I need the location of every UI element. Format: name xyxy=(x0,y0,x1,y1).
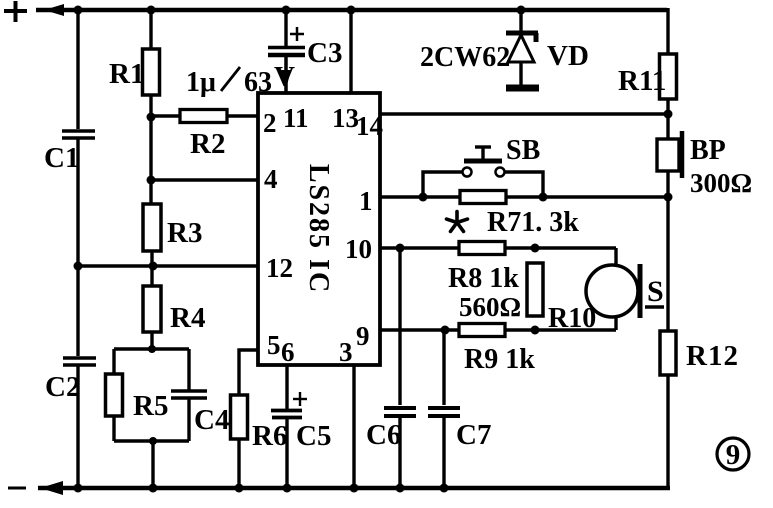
zener VD stem xyxy=(519,62,522,85)
microphone S plate xyxy=(638,264,643,318)
resistor R7 xyxy=(460,191,506,204)
svg-text:12: 12 xyxy=(266,253,293,283)
zener diode VD wire xyxy=(519,9,522,33)
capacitor C5 xyxy=(271,411,302,418)
svg-text:6: 6 xyxy=(281,337,295,367)
svg-text:C7: C7 xyxy=(456,419,491,451)
svg-text:R2: R2 xyxy=(190,128,225,160)
capacitor C4 xyxy=(171,391,207,398)
wire: BP bottom down right side xyxy=(666,171,669,331)
microphone S body xyxy=(586,265,638,317)
plus terminal xyxy=(4,1,27,22)
svg-text:S: S xyxy=(647,275,664,308)
wire: loop stem to rail xyxy=(151,441,154,488)
svg-text:R6: R6 xyxy=(252,420,287,452)
letter V arrow into pin 11 xyxy=(274,61,295,93)
svg-text:1: 1 xyxy=(359,186,373,216)
wire: pin 5 jog to R6 xyxy=(239,350,258,395)
bottom rail xyxy=(38,486,670,491)
svg-text:C2: C2 xyxy=(45,371,80,403)
wire: left line middle (C1 to C2) xyxy=(76,138,79,356)
minus terminal xyxy=(8,487,26,490)
svg-text:560Ω: 560Ω xyxy=(459,292,521,322)
svg-text:C1: C1 xyxy=(44,142,79,174)
wire: C7 to rail xyxy=(442,415,445,488)
junction dots bottom rail xyxy=(74,484,449,493)
svg-text:9: 9 xyxy=(356,321,370,351)
capacitor C7 xyxy=(428,408,460,416)
wire: pin 3 to rail xyxy=(352,365,355,488)
resistor R5 xyxy=(106,374,123,416)
top rail xyxy=(36,8,667,13)
svg-text:5: 5 xyxy=(267,330,281,360)
resistor R11 xyxy=(660,54,677,99)
wire: pin 9 line xyxy=(380,328,616,331)
wire: loop bottom xyxy=(114,439,189,442)
resistor R9 xyxy=(459,324,505,337)
circled figure number 9 xyxy=(717,438,749,471)
junction dots pin 10 line xyxy=(396,244,540,253)
resistor R12 xyxy=(660,331,676,375)
capacitor C1 xyxy=(62,131,95,138)
svg-text:9: 9 xyxy=(726,439,741,471)
svg-text:C3: C3 xyxy=(307,37,342,69)
wire: R2 right to pin 2 xyxy=(227,114,258,117)
wire: pin 14 line xyxy=(380,112,668,115)
resistor R2 xyxy=(180,110,227,123)
wire: pin 9 branch down to C7 xyxy=(442,330,445,405)
svg-text:R5: R5 xyxy=(133,390,168,422)
wire: pin 12 line xyxy=(78,264,258,267)
wire: pin 4 line xyxy=(151,178,258,181)
svg-text:R8 1k: R8 1k xyxy=(448,263,519,294)
resistor R1 xyxy=(143,49,160,95)
switch SB contact right xyxy=(496,168,505,177)
wire: pin 1 line xyxy=(380,195,668,198)
IC U1 LS285 box xyxy=(258,93,380,365)
junction dot pin 14 node xyxy=(664,110,673,119)
resistor R4 xyxy=(143,286,161,332)
wire: C3 to pin 11 xyxy=(284,55,288,93)
switch SB right arm xyxy=(505,172,543,197)
label S underlined xyxy=(645,275,664,308)
svg-text:11: 11 xyxy=(283,103,309,133)
wire: R1 top xyxy=(149,10,152,49)
switch SB contact left xyxy=(463,168,472,177)
plus mark C3 xyxy=(290,27,304,41)
wire: mic top riser xyxy=(614,248,617,267)
wire: R3 bottom to R4 top xyxy=(150,251,153,286)
plus mark C5 xyxy=(293,392,307,406)
buzzer BP xyxy=(657,131,682,178)
polarity arrow on bottom rail xyxy=(40,481,63,495)
wire: pin 10 line xyxy=(380,246,616,249)
wire: mic bottom riser xyxy=(614,316,617,330)
svg-text:C6: C6 xyxy=(366,419,401,451)
svg-text:3: 3 xyxy=(339,337,353,367)
svg-text:1μ: 1μ xyxy=(186,67,216,98)
wire: R5/C4 loop top xyxy=(114,347,189,350)
svg-text:4: 4 xyxy=(264,164,278,194)
wire: left line top (rail to C1) xyxy=(76,10,79,129)
resistor R6 xyxy=(231,395,248,439)
svg-text:10: 10 xyxy=(345,234,372,264)
wire: R11 bottom to BP xyxy=(666,99,669,139)
wire: R1 bottom to R3 top xyxy=(149,95,152,204)
svg-text:C4: C4 xyxy=(194,404,229,436)
svg-text:2: 2 xyxy=(263,108,277,138)
zener VD triangle xyxy=(508,35,534,62)
junction dots left column xyxy=(74,113,158,446)
wire: R12 bottom to rail xyxy=(666,375,669,488)
svg-text:LS285 IC: LS285 IC xyxy=(303,164,334,294)
svg-text:2CW62: 2CW62 xyxy=(420,42,510,73)
svg-text:300Ω: 300Ω xyxy=(690,168,752,198)
capacitor C6 xyxy=(384,408,416,416)
wire: C5 to rail xyxy=(285,418,288,488)
wire: loop right leg xyxy=(187,349,190,441)
svg-text:13: 13 xyxy=(332,103,359,133)
wire: R6 bottom to rail xyxy=(237,439,240,488)
wire: pin 10 branch down to C6 xyxy=(398,248,401,405)
label 1u/63V xyxy=(186,67,272,98)
zener VD anode bar xyxy=(506,85,539,92)
switch SB actuator xyxy=(464,147,502,161)
wire: R2 left xyxy=(151,114,180,117)
polarity arrow on top rail xyxy=(44,4,64,16)
wire: C6 to rail xyxy=(398,415,401,488)
svg-text:R9 1k: R9 1k xyxy=(464,344,535,375)
wire: pin 13 to top rail xyxy=(349,10,352,93)
svg-text:R3: R3 xyxy=(167,217,202,249)
svg-text:R1: R1 xyxy=(109,58,144,90)
junction dots pin 9 line xyxy=(441,326,540,335)
svg-text:R12: R12 xyxy=(686,340,739,372)
svg-text:14: 14 xyxy=(356,111,383,141)
switch SB left arm xyxy=(423,172,462,197)
svg-text:R11: R11 xyxy=(618,65,666,97)
svg-text:BP: BP xyxy=(690,135,726,166)
star mark xyxy=(447,212,468,232)
svg-text:VD: VD xyxy=(547,40,589,72)
svg-text:SB: SB xyxy=(506,135,540,166)
svg-text:R4: R4 xyxy=(170,302,205,334)
junction dots top rail xyxy=(74,6,526,15)
wire: loop left leg xyxy=(112,349,115,441)
wire: R4 bottom to loop xyxy=(150,332,153,349)
resistor R8 xyxy=(459,242,505,255)
resistor R10 xyxy=(527,263,543,316)
capacitor C3 xyxy=(268,48,305,56)
wire: left line bottom (C2 to rail) xyxy=(76,365,79,488)
svg-text:C5: C5 xyxy=(296,420,331,452)
resistor R3 xyxy=(143,204,161,251)
wire: R11 top xyxy=(666,8,669,54)
wire: pin 6 to C5 xyxy=(285,365,288,409)
junction dots pin 1 line xyxy=(419,193,673,202)
capacitor C2 xyxy=(63,358,96,365)
svg-text:R71. 3k: R71. 3k xyxy=(487,207,579,238)
wire: C3 top xyxy=(284,10,287,46)
zener VD cathode bar xyxy=(506,33,538,42)
